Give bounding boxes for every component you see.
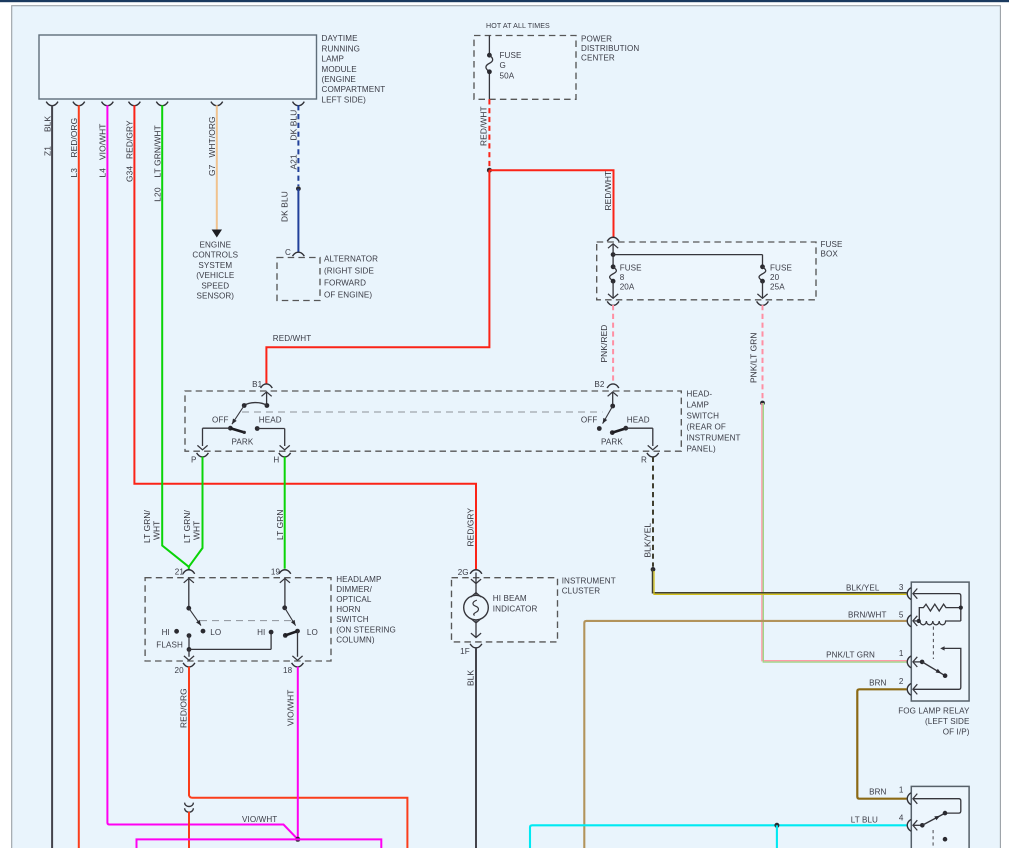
hi beam lamp lead bottom bbox=[471, 619, 481, 623]
wire LT BLU bbox=[530, 825, 907, 848]
svg-text:WHT: WHT bbox=[151, 521, 161, 540]
svg-text:PARK: PARK bbox=[232, 438, 254, 447]
lower relay movable contact bbox=[922, 814, 943, 825]
contact HEAD right bbox=[623, 426, 628, 431]
lower pin 4 connector bbox=[907, 819, 911, 831]
pin R connector bbox=[647, 453, 659, 457]
pin 19 arrow bbox=[280, 578, 290, 582]
relay coil feed bbox=[914, 594, 961, 621]
module pin connectors bbox=[46, 102, 304, 106]
flash link wire to HI right bbox=[189, 648, 271, 650]
svg-text:COLUMN): COLUMN) bbox=[336, 635, 375, 644]
contact LO right bbox=[295, 629, 300, 634]
svg-text:WHT: WHT bbox=[192, 521, 202, 540]
svg-text:LO: LO bbox=[307, 628, 318, 637]
B2 wiper arm to OFF bbox=[603, 406, 613, 424]
svg-text:LT GRN/: LT GRN/ bbox=[142, 509, 152, 543]
fuse 20 bbox=[760, 264, 765, 269]
svg-text:RUNNING: RUNNING bbox=[322, 44, 360, 53]
svg-text:LAMP: LAMP bbox=[322, 55, 344, 64]
svg-text:21: 21 bbox=[175, 568, 185, 577]
svg-text:LT GRN/WHT: LT GRN/WHT bbox=[152, 125, 162, 177]
pin 2G arrow bbox=[475, 573, 477, 583]
wire L4 VIO/WHT bbox=[107, 105, 297, 839]
svg-text:BLK/YEL: BLK/YEL bbox=[846, 583, 880, 592]
mechanical link dashed bbox=[242, 411, 603, 413]
svg-text:HEAD: HEAD bbox=[259, 416, 282, 425]
splice BLK/YEL bbox=[651, 567, 656, 572]
power distribution center box bbox=[474, 36, 576, 100]
svg-text:PNK/RED: PNK/RED bbox=[599, 325, 609, 363]
wire RED branch to fog lamps bbox=[189, 795, 407, 848]
svg-text:2G: 2G bbox=[458, 568, 469, 577]
wire G34 RED/GRY bbox=[134, 105, 476, 569]
svg-text:LT BLU: LT BLU bbox=[851, 816, 878, 825]
svg-text:HORN: HORN bbox=[336, 605, 360, 614]
flash common contacts bbox=[187, 633, 192, 638]
wire RED/WHT junction to B1 bbox=[266, 170, 489, 383]
wire BLK/YEL dashed bbox=[652, 457, 654, 567]
wire Z1 BLK vertical bbox=[51, 105, 53, 848]
fuse G bbox=[487, 53, 492, 58]
svg-text:INSTRUMENT: INSTRUMENT bbox=[562, 576, 616, 585]
svg-text:25A: 25A bbox=[770, 283, 785, 292]
svg-text:19: 19 bbox=[271, 568, 281, 577]
power distribution center label bbox=[581, 34, 639, 62]
svg-text:LO: LO bbox=[210, 628, 221, 637]
svg-text:20: 20 bbox=[174, 666, 184, 675]
svg-text:R: R bbox=[641, 456, 647, 465]
svg-text:RED/ORG: RED/ORG bbox=[178, 688, 188, 728]
svg-text:20: 20 bbox=[770, 273, 780, 282]
headlamp switch box bbox=[185, 391, 681, 451]
svg-text:OF I/P): OF I/P) bbox=[943, 727, 970, 736]
pin 5 connector bbox=[907, 615, 911, 627]
splice PNK/LT GRN bbox=[760, 401, 765, 406]
svg-text:HEADLAMP: HEADLAMP bbox=[336, 575, 381, 584]
svg-text:(REAR OF: (REAR OF bbox=[687, 423, 726, 432]
pin B2 arrow bbox=[608, 392, 618, 396]
flash wiper arm to LO bbox=[189, 608, 201, 625]
relay movable contact bbox=[922, 662, 945, 676]
pin B1 arrow bbox=[262, 392, 272, 396]
svg-text:BRN/WHT: BRN/WHT bbox=[848, 611, 886, 620]
dimmer wiper bbox=[283, 633, 288, 638]
svg-text:CONTROLS: CONTROLS bbox=[192, 251, 238, 260]
svg-text:HI: HI bbox=[162, 628, 170, 637]
svg-text:LT GRN: LT GRN bbox=[275, 509, 285, 540]
wire LT BLU branch down bbox=[776, 825, 778, 848]
top navy border bar bbox=[0, 0, 1009, 2]
wire BLK/YEL solid dark half bbox=[653, 569, 907, 592]
B1 rotor bbox=[265, 403, 270, 408]
wire VIO/WHT from 18 bbox=[297, 667, 299, 838]
svg-text:ALTERNATOR: ALTERNATOR bbox=[324, 254, 378, 263]
svg-text:BRN: BRN bbox=[869, 678, 886, 687]
wire flash common to exit 20 bbox=[188, 649, 190, 656]
headlamp dimmer switch label bbox=[336, 575, 396, 645]
wire HEAD right to exit R bbox=[626, 427, 653, 429]
wire RED/WHT junction to fuse box bbox=[489, 170, 613, 237]
wire DK BLU solid to alternator bbox=[297, 189, 299, 253]
svg-text:FOG LAMP RELAY: FOG LAMP RELAY bbox=[898, 706, 970, 715]
alternator pin C connector bbox=[293, 252, 305, 256]
contact P common bbox=[228, 426, 233, 431]
svg-text:CENTER: CENTER bbox=[581, 54, 615, 63]
svg-text:FORWARD: FORWARD bbox=[324, 279, 366, 288]
fuse box bbox=[597, 242, 816, 300]
svg-text:DAYTIME: DAYTIME bbox=[322, 34, 359, 43]
contact LO left bbox=[201, 629, 206, 634]
svg-text:FUSE: FUSE bbox=[620, 263, 642, 272]
instrument cluster label bbox=[562, 576, 616, 595]
fuse G label bbox=[500, 51, 522, 80]
svg-text:INDICATOR: INDICATOR bbox=[493, 604, 538, 613]
svg-text:HOT AT ALL TIMES: HOT AT ALL TIMES bbox=[486, 22, 550, 30]
wire H LT GRN bbox=[284, 457, 286, 569]
pin 20 connector bbox=[183, 663, 195, 667]
svg-text:SENSOR): SENSOR) bbox=[197, 292, 235, 301]
wire BRN/WHT bbox=[584, 621, 906, 848]
lower relay armature link dashed bbox=[932, 830, 934, 848]
svg-text:(ENGINE: (ENGINE bbox=[322, 75, 357, 84]
svg-text:50A: 50A bbox=[500, 71, 515, 80]
svg-text:A21: A21 bbox=[289, 154, 299, 169]
svg-text:RED/WHT: RED/WHT bbox=[273, 334, 311, 343]
junction in fuse box bbox=[611, 252, 616, 257]
svg-text:FUSE: FUSE bbox=[500, 51, 522, 60]
B1 wiper arm to OFF bbox=[232, 406, 244, 425]
svg-text:B1: B1 bbox=[252, 380, 262, 389]
dimmer rotor dot bbox=[282, 605, 287, 610]
svg-text:SYSTEM: SYSTEM bbox=[198, 261, 232, 270]
svg-text:RED/GRY: RED/GRY bbox=[125, 120, 135, 159]
fuse box label bbox=[821, 240, 843, 259]
svg-text:RED/WHT: RED/WHT bbox=[479, 106, 489, 146]
svg-text:DK BLU: DK BLU bbox=[279, 191, 289, 222]
svg-text:RED/ORG: RED/ORG bbox=[69, 118, 79, 158]
svg-text:(RIGHT SIDE: (RIGHT SIDE bbox=[324, 266, 374, 275]
svg-text:P: P bbox=[191, 455, 197, 464]
svg-text:8: 8 bbox=[620, 273, 625, 282]
svg-text:HI BEAM: HI BEAM bbox=[493, 594, 527, 603]
svg-text:2: 2 bbox=[899, 677, 904, 686]
junction LT BLU bbox=[774, 823, 779, 828]
wire G7 WHT/ORG bbox=[216, 105, 218, 230]
svg-text:OPTICAL: OPTICAL bbox=[336, 595, 372, 604]
wire BLK/YEL solid yellow half bbox=[654, 571, 907, 594]
fuse 20 label bbox=[770, 263, 792, 291]
lower relay NC contact bbox=[943, 837, 948, 842]
junction VIO/WHT bbox=[295, 837, 300, 842]
svg-text:BOX: BOX bbox=[821, 249, 839, 258]
lower relay contact wire bbox=[914, 799, 961, 813]
contact HI left bbox=[174, 629, 179, 634]
wiper PARK left bbox=[230, 428, 244, 432]
svg-text:Z1: Z1 bbox=[42, 146, 52, 156]
pin B1 connector bbox=[261, 384, 273, 388]
fuse box internal bus bbox=[613, 254, 762, 256]
instrument cluster box bbox=[452, 578, 558, 642]
wire P LT GRN/WHT bbox=[189, 457, 203, 567]
svg-text:BRN: BRN bbox=[869, 788, 886, 797]
fuse box entry connector bbox=[607, 237, 619, 241]
wiper PARK right bbox=[612, 428, 626, 432]
svg-text:G7: G7 bbox=[207, 164, 217, 176]
B2 rotor dot bbox=[610, 404, 615, 409]
fuse 8 label bbox=[620, 263, 642, 291]
pin 2 connector bbox=[907, 683, 911, 695]
svg-text:ENGINE: ENGINE bbox=[199, 241, 231, 250]
dimmer wiper arm to LO bbox=[285, 608, 296, 626]
wire PNK/RED dashed bbox=[612, 305, 614, 381]
fog lamp relay box bbox=[911, 582, 969, 701]
svg-text:HEAD-: HEAD- bbox=[687, 390, 713, 399]
fuse 8 bbox=[611, 264, 616, 269]
wire BLK from 1F bbox=[475, 648, 477, 848]
wire RED/ORG from 20 bbox=[188, 667, 190, 796]
inline connector on RED/ORG bbox=[185, 803, 194, 807]
headlamp dimmer switch box bbox=[145, 578, 331, 661]
svg-text:VIO/WHT: VIO/WHT bbox=[285, 689, 295, 726]
fog lamp switch relay box bbox=[911, 786, 969, 848]
svg-text:LEFT SIDE): LEFT SIDE) bbox=[322, 95, 367, 104]
wire BRN pin2 to lower relay bbox=[857, 689, 906, 798]
wire L3 RED/ORG vertical bbox=[78, 105, 80, 848]
svg-text:DK BLU: DK BLU bbox=[289, 110, 299, 141]
svg-text:VIO/WHT: VIO/WHT bbox=[242, 815, 277, 824]
fuse G feed wire bbox=[488, 36, 490, 56]
relay resistor bbox=[919, 604, 961, 620]
fuse 20 exit bbox=[762, 281, 764, 298]
headlamp switch label bbox=[687, 390, 741, 454]
svg-text:LAMP: LAMP bbox=[687, 401, 709, 410]
svg-text:SWITCH: SWITCH bbox=[336, 615, 369, 624]
svg-text:MODULE: MODULE bbox=[322, 65, 358, 74]
lower pin 1 connector bbox=[907, 793, 911, 805]
fuse 8 exit bbox=[612, 281, 614, 298]
svg-text:RED/GRY: RED/GRY bbox=[465, 507, 475, 546]
pin 3 connector bbox=[907, 588, 911, 600]
svg-text:B2: B2 bbox=[594, 380, 604, 389]
svg-text:FLASH: FLASH bbox=[156, 641, 183, 650]
svg-text:G: G bbox=[500, 61, 506, 70]
contact PARK right bbox=[610, 430, 615, 435]
svg-text:18: 18 bbox=[283, 666, 293, 675]
svg-text:POWER: POWER bbox=[581, 34, 612, 43]
svg-text:G34: G34 bbox=[125, 166, 135, 182]
svg-text:SWITCH: SWITCH bbox=[687, 412, 720, 421]
alternator label bbox=[324, 254, 378, 299]
pin 18 connector bbox=[292, 663, 304, 667]
svg-text:1F: 1F bbox=[460, 647, 470, 656]
wire RED/ORG below connector bbox=[188, 812, 190, 848]
svg-text:L3: L3 bbox=[69, 168, 79, 178]
svg-text:CLUSTER: CLUSTER bbox=[562, 587, 601, 596]
svg-text:PNK/LT GRN: PNK/LT GRN bbox=[749, 333, 759, 383]
pin P connector bbox=[197, 453, 209, 457]
daytime running lamp module box bbox=[39, 35, 317, 99]
svg-text:FUSE: FUSE bbox=[821, 240, 843, 249]
svg-text:1: 1 bbox=[899, 786, 904, 795]
svg-text:3: 3 bbox=[899, 583, 904, 592]
svg-text:4: 4 bbox=[899, 814, 904, 823]
svg-text:SPEED: SPEED bbox=[201, 281, 229, 290]
wire LO right to exit 18 bbox=[297, 631, 299, 657]
svg-text:BLK: BLK bbox=[465, 670, 475, 686]
svg-text:C: C bbox=[285, 248, 291, 257]
hi beam indicator lamp bbox=[464, 595, 489, 620]
lower relay common contact bbox=[920, 823, 925, 828]
relay coil bbox=[920, 621, 961, 625]
svg-text:20A: 20A bbox=[620, 283, 635, 292]
svg-text:(VEHICLE: (VEHICLE bbox=[196, 271, 235, 280]
pin 1 connector bbox=[907, 656, 911, 668]
relay armature link dashed bbox=[932, 627, 934, 660]
alternator box bbox=[277, 258, 320, 301]
pin 21 arrow bbox=[184, 578, 194, 582]
dimmer mechanical link dashed bbox=[200, 620, 295, 622]
contact HI right bbox=[269, 630, 274, 635]
svg-text:DISTRIBUTION: DISTRIBUTION bbox=[581, 44, 639, 53]
arrow to engine controls system bbox=[212, 230, 222, 238]
wire A21 DK BLU dashed bbox=[297, 105, 299, 186]
contact OFF right bbox=[597, 426, 602, 431]
svg-text:COMPARTMENT: COMPARTMENT bbox=[322, 85, 386, 94]
svg-text:BLK/YEL: BLK/YEL bbox=[642, 523, 652, 558]
wire VIO/WHT bottom loop bbox=[137, 839, 382, 848]
hi beam lamp lead top bbox=[475, 584, 477, 596]
wire P common to exit bbox=[203, 427, 231, 429]
daytime running lamp module label bbox=[322, 34, 386, 104]
pin H connector bbox=[279, 453, 291, 457]
wire PNK/LT GRN dashed bbox=[762, 305, 764, 400]
svg-text:LT GRN/: LT GRN/ bbox=[182, 509, 192, 543]
wire PNK/LT GRN solid pink half bbox=[762, 403, 907, 661]
svg-text:BLK: BLK bbox=[42, 116, 52, 132]
junction coil left bbox=[917, 619, 921, 623]
fog lamp relay label bbox=[898, 706, 970, 736]
pin 2G connector bbox=[470, 570, 482, 574]
svg-text:HI: HI bbox=[257, 628, 265, 637]
pin 21 connector bbox=[183, 570, 195, 574]
svg-text:PNK/LT GRN: PNK/LT GRN bbox=[826, 651, 875, 660]
svg-text:FUSE: FUSE bbox=[770, 263, 792, 272]
pin 19 connector bbox=[279, 570, 291, 574]
svg-text:HEAD: HEAD bbox=[627, 416, 650, 425]
svg-text:INSTRUMENT: INSTRUMENT bbox=[687, 434, 741, 443]
svg-text:L4: L4 bbox=[98, 168, 108, 178]
svg-text:DIMMER/: DIMMER/ bbox=[336, 585, 372, 594]
junction resistor top bbox=[959, 606, 963, 610]
svg-text:OF ENGINE): OF ENGINE) bbox=[324, 291, 372, 300]
svg-text:RED/WHT: RED/WHT bbox=[603, 171, 613, 211]
svg-text:PARK: PARK bbox=[601, 438, 623, 447]
svg-text:WHT/ORG: WHT/ORG bbox=[207, 116, 217, 157]
splice on DK BLU bbox=[296, 186, 301, 191]
svg-text:(LEFT SIDE: (LEFT SIDE bbox=[925, 717, 970, 726]
svg-text:1: 1 bbox=[899, 649, 904, 658]
contact HEAD left bbox=[255, 426, 260, 431]
relay common contact bbox=[920, 660, 925, 665]
svg-text:5: 5 bbox=[899, 610, 904, 619]
wire RED/WHT dashed from PDC bbox=[488, 99, 490, 167]
lamp filament bbox=[473, 600, 479, 615]
engine controls system label bbox=[192, 241, 238, 301]
pin 1F connector bbox=[470, 644, 482, 648]
svg-text:H: H bbox=[273, 455, 279, 464]
wire 21 stem bbox=[188, 567, 190, 570]
junction RED/WHT bbox=[487, 168, 492, 173]
wire HEAD to exit H bbox=[257, 428, 285, 430]
flash rotor dot bbox=[186, 606, 191, 611]
hi beam indicator label bbox=[493, 594, 538, 613]
svg-text:(ON STEERING: (ON STEERING bbox=[336, 625, 396, 634]
wire PNK/LT GRN solid green half bbox=[763, 403, 906, 662]
svg-text:OFF: OFF bbox=[212, 416, 228, 425]
wire L20 LT GRN/WHT bbox=[162, 105, 189, 567]
svg-text:PANEL): PANEL) bbox=[687, 445, 716, 454]
pin B2 connector bbox=[607, 384, 619, 388]
relay NO contact wire bbox=[914, 648, 961, 689]
svg-text:OFF: OFF bbox=[581, 416, 597, 425]
svg-text:L20: L20 bbox=[152, 187, 162, 202]
fuse box entry arrow bbox=[608, 244, 618, 248]
svg-text:VIO/WHT: VIO/WHT bbox=[98, 123, 108, 160]
